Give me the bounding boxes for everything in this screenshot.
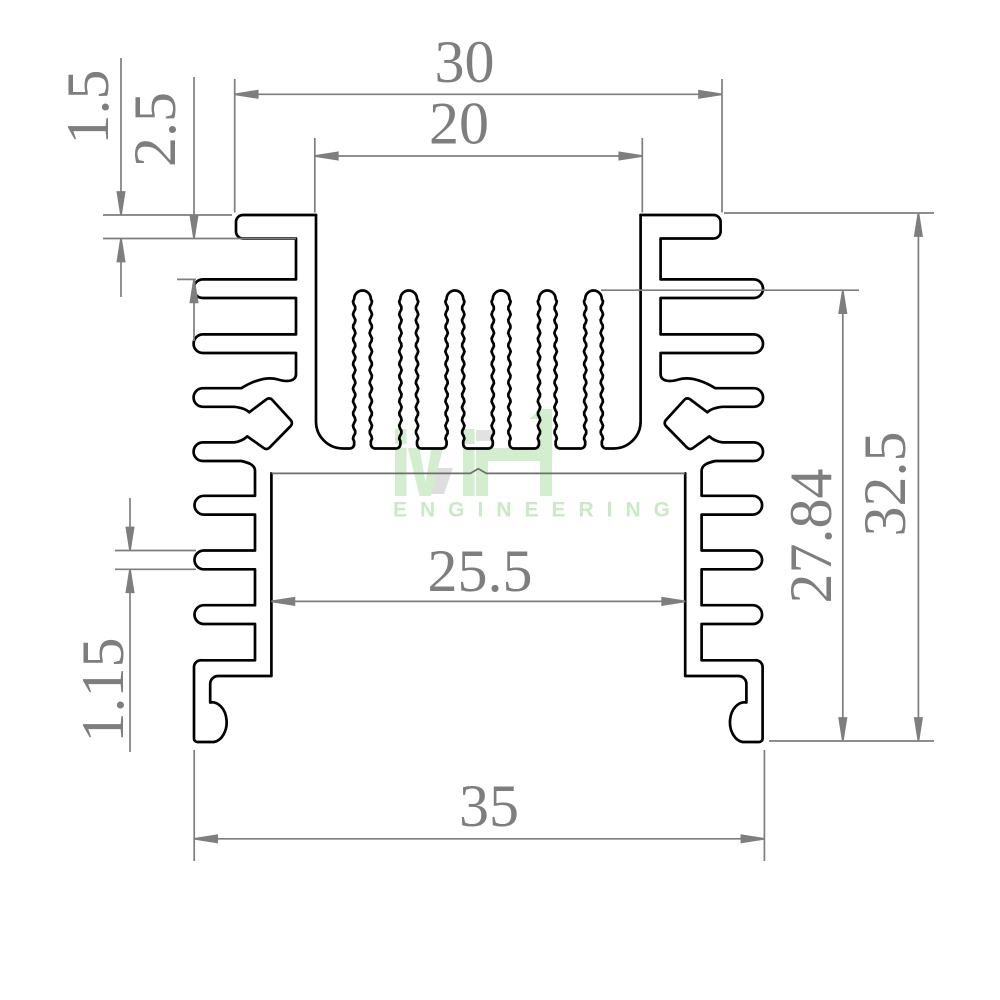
dimension 27.84: fin-tip height [601, 289, 859, 291]
svg-text:27.84: 27.84 [778, 469, 844, 604]
svg-text:35: 35 [459, 773, 519, 839]
svg-text:1.5: 1.5 [55, 70, 121, 145]
svg-text:32.5: 32.5 [852, 432, 918, 537]
dimension 25.5: bottom slot width [271, 600, 685, 602]
heatsink profile: left outer boundary (ear lip, side fins, clip groove, foot) [194, 215, 316, 742]
dimension 2.5: lip to first fin gap [177, 278, 196, 280]
svg-text:25.5: 25.5 [428, 538, 533, 604]
svg-text:20: 20 [429, 91, 489, 157]
heatsink profile: right outer boundary (mirror) [641, 215, 763, 742]
bottom slot ceiling line with centre V notch [271, 469, 685, 474]
dimension 32.5: overall height [724, 212, 934, 214]
watermark logo ivin [395, 409, 552, 496]
dimension 20: channel width [314, 138, 316, 213]
svg-text:ENGINEERING: ENGINEERING [393, 499, 683, 522]
heatsink profile: central channel with 6 corrugated pin fins [316, 215, 641, 449]
svg-text:2.5: 2.5 [122, 92, 188, 167]
dimension 30: top width [234, 79, 236, 213]
dimension 35: overall width [193, 750, 195, 861]
svg-text:30: 30 [435, 29, 495, 95]
svg-text:1.15: 1.15 [70, 638, 136, 743]
dimension 1.15: fin thickness [115, 550, 196, 552]
dimension 1.5: lip thickness [103, 214, 232, 216]
